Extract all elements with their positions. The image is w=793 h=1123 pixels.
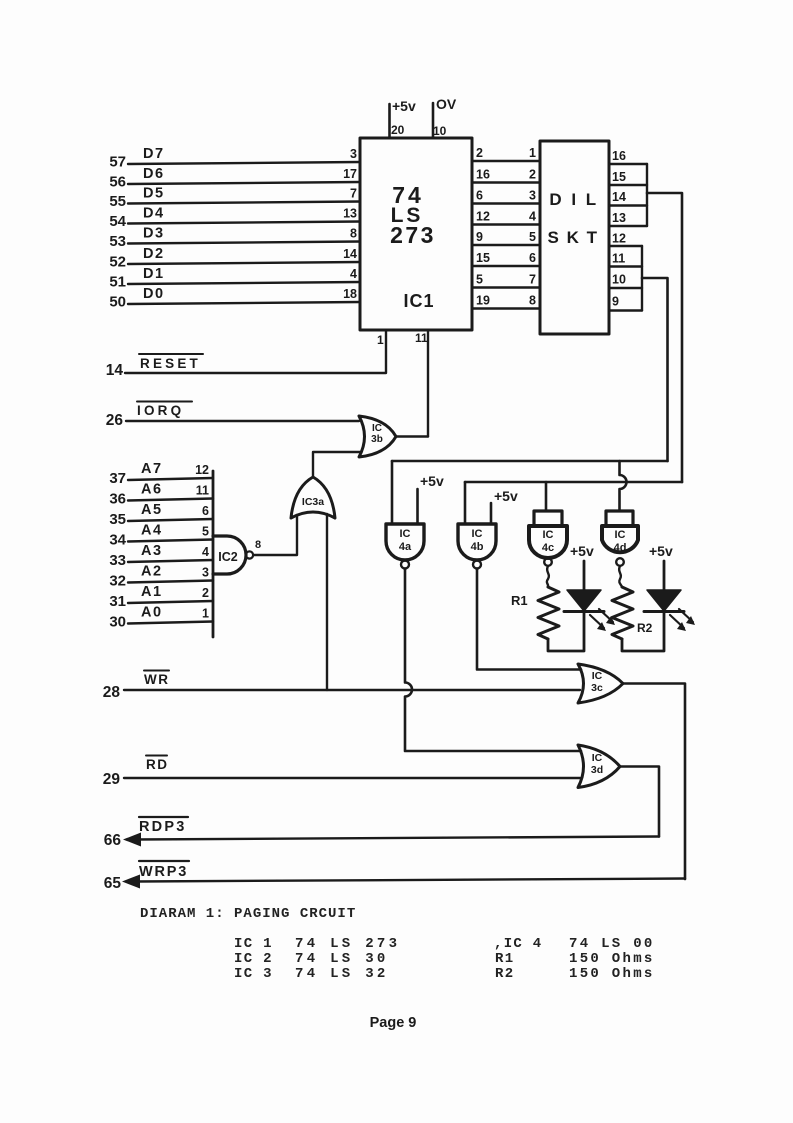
svg-text:66: 66 (104, 832, 122, 849)
caption DIARAM 1: PAGING CRCUIT (140, 906, 356, 922)
wire R2 bottom to LED2 cathode (622, 612, 664, 651)
svg-text:A2: A2 (141, 564, 163, 580)
wire DIL pin 14 net to IC4b/IC4c inputs (465, 481, 682, 484)
wire address line A2 to IC2 pin 3 (128, 581, 213, 583)
pin 12 label (476, 210, 490, 224)
svg-text:55: 55 (109, 193, 126, 210)
svg-text:11: 11 (196, 484, 209, 498)
wire IC1 pin 12 to DIL SKT pin 4 (472, 223, 540, 225)
IC (74LS273) U IC1 body (360, 138, 472, 330)
svg-text:R2: R2 (495, 966, 514, 982)
svg-text:D2: D2 (143, 246, 165, 262)
node RDP3 label (139, 817, 188, 835)
wire +5v supply to IC1 pin 20 (388, 104, 391, 138)
node signal number 56 (109, 174, 126, 191)
pin 4 label (202, 545, 209, 559)
pin 13 label (612, 211, 626, 225)
pin 11 label (196, 484, 209, 498)
svg-text:RD: RD (146, 757, 169, 772)
svg-text:D3: D3 (143, 226, 165, 242)
wire DIL SKT right-side pin row separator 1 (609, 163, 647, 165)
pin 11 label (415, 331, 428, 345)
svg-text:A6: A6 (141, 482, 163, 498)
svg-text:13: 13 (612, 211, 626, 225)
node IORQ label (137, 402, 192, 419)
nand-gate IC4b body (458, 524, 496, 569)
node D4 label (143, 206, 165, 222)
svg-text:S K T: S K T (548, 228, 599, 247)
nand-gate IC4d shorted-inputs box (606, 511, 633, 526)
svg-text:11: 11 (612, 252, 625, 266)
svg-text:8: 8 (529, 294, 536, 308)
svg-text:74 LS 32: 74 LS 32 (295, 966, 389, 982)
node signal number 34 (109, 532, 126, 549)
DIL label (549, 190, 598, 209)
node signal number 36 (109, 491, 126, 508)
node +5v label for LED2 (649, 543, 673, 559)
wire DIL SKT right-side pin row separator 8 (609, 309, 642, 311)
svg-text:13: 13 (343, 207, 357, 221)
node signal number 51 (109, 274, 126, 291)
node signal number 33 (109, 552, 126, 569)
node signal number 54 (109, 213, 126, 230)
svg-text:A1: A1 (141, 584, 163, 600)
wire RDP3 output line (134, 837, 659, 840)
svg-text:D1: D1 (143, 266, 165, 282)
svg-text:4: 4 (350, 267, 357, 281)
wire address line A4 to IC2 pin 5 (128, 540, 213, 542)
svg-text:5: 5 (476, 273, 483, 287)
node signal number 29 (103, 771, 121, 788)
svg-text:12: 12 (612, 232, 626, 246)
nand-gate IC2 input bar (212, 471, 215, 637)
wire data line D6 to IC1 pin 17 (128, 182, 360, 184)
svg-text:R1: R1 (511, 593, 528, 608)
svg-text:A5: A5 (141, 502, 163, 518)
node 0V label (436, 96, 457, 112)
node signal number 37 (109, 470, 126, 487)
svg-text:52: 52 (109, 254, 126, 271)
svg-text:4: 4 (202, 545, 209, 559)
svg-text:1: 1 (202, 607, 209, 621)
svg-text:14: 14 (106, 362, 124, 379)
wire IC2 output to IC3a input (254, 515, 298, 555)
svg-text:9: 9 (476, 230, 483, 244)
pin 6 label (529, 251, 536, 265)
svg-text:R2: R2 (637, 621, 653, 635)
nand-gate IC4d body (602, 526, 638, 566)
svg-text:5: 5 (202, 525, 209, 539)
svg-text:15: 15 (476, 251, 490, 265)
svg-text:A7: A7 (141, 461, 163, 477)
wire address line A5 to IC2 pin 6 (128, 519, 213, 521)
wire data line D7 to IC1 pin 3 (128, 162, 360, 164)
or-gate IC3c (578, 664, 623, 703)
pin 19 label (476, 294, 490, 308)
wire address line A0 to IC2 pin 1 (128, 622, 213, 624)
wire DIL SKT right-side pin row separator 5 (609, 245, 642, 247)
pin 4 label (529, 210, 536, 224)
svg-text:28: 28 (103, 684, 121, 701)
wire address line A7 to IC2 pin 12 (128, 478, 213, 480)
pin 8 label (350, 227, 357, 241)
wire data line D0 to IC1 pin 18 (128, 302, 360, 304)
pin 16 label (612, 149, 626, 163)
LED D2 (644, 590, 695, 631)
pin 2 label (529, 168, 536, 182)
wire IC4b left input from pin14 net (464, 482, 467, 524)
svg-text:+5v: +5v (494, 488, 518, 504)
svg-text:D7: D7 (143, 146, 165, 162)
wire 0V supply to IC1 pin 10 (432, 103, 435, 138)
svg-text:50: 50 (109, 294, 126, 311)
pin 5 label (202, 525, 209, 539)
or-gate IC3a (291, 477, 335, 518)
wire IC3c output to WRP3 (623, 684, 685, 880)
nand-gate IC4a body (386, 524, 424, 569)
wire data line D4 to IC1 pin 13 (128, 222, 360, 224)
svg-text:IC 2: IC 2 (234, 951, 273, 967)
svg-text:IC: IC (592, 670, 603, 682)
node A5 label (141, 502, 163, 518)
wire IC4c output to R1 (547, 566, 549, 587)
wire DIL SKT right-side pin row separator 7 (609, 287, 642, 289)
node signal number 30 (109, 614, 126, 631)
pin 3 label (529, 189, 536, 203)
wire DIL SKT right-side pin row separator 6 (609, 265, 642, 267)
svg-text:IORQ: IORQ (137, 403, 184, 418)
pin 14 label (343, 247, 357, 261)
wire RESET to IC1 pin 1 (125, 331, 386, 373)
svg-text:74 LS 00: 74 LS 00 (569, 936, 655, 952)
svg-text:OV: OV (436, 96, 457, 112)
svg-text:5: 5 (529, 230, 536, 244)
svg-text:4a: 4a (399, 541, 412, 553)
wire IC1 pin 19 to DIL SKT pin 8 (472, 307, 540, 309)
svg-text:273: 273 (390, 222, 436, 248)
parts list left column (234, 936, 400, 952)
wire IC1 pin 11 clock to IC3b output (427, 331, 429, 437)
wire IC4b +5v input (490, 503, 493, 524)
pin 4 label (350, 267, 357, 281)
pin 18 label (343, 287, 357, 301)
svg-text:31: 31 (109, 593, 126, 610)
svg-text:D6: D6 (143, 166, 165, 182)
wire RD to IC3d input (124, 777, 580, 779)
node signal number 53 (109, 233, 126, 250)
svg-text:IC 1: IC 1 (234, 936, 273, 952)
node signal number 28 (103, 684, 121, 701)
node RD label (146, 756, 169, 773)
svg-text:16: 16 (612, 149, 626, 163)
wire DIL right edge pins 15-13 (646, 164, 648, 226)
node signal number 55 (109, 193, 126, 210)
node A1 label (141, 584, 163, 600)
node signal number 35 (109, 511, 126, 528)
svg-text:RDP3: RDP3 (139, 819, 186, 835)
svg-text:WRP3: WRP3 (139, 864, 188, 880)
node A7 label (141, 461, 163, 477)
wire IC4b output to IC3c input (477, 569, 581, 670)
wire DIL pin 10 net to IC4a input (392, 460, 668, 463)
svg-text:IC 3: IC 3 (234, 966, 273, 982)
wire WRP3 output line (136, 879, 685, 882)
svg-text:20: 20 (391, 123, 405, 137)
IC1 value label 74 LS 273 (390, 182, 436, 248)
node signal number 57 (109, 154, 126, 171)
LED D1 (564, 590, 615, 631)
svg-text:14: 14 (343, 247, 357, 261)
or-gate IC3b (359, 416, 396, 457)
node +5v label (420, 473, 444, 489)
svg-text:IC: IC (615, 529, 626, 541)
svg-text:17: 17 (343, 167, 357, 181)
pin 6 label (476, 189, 483, 203)
pin 20 label (391, 123, 405, 137)
pin 14 label (612, 190, 626, 204)
wire WR to IC3c input (124, 689, 580, 691)
svg-text:51: 51 (109, 274, 126, 291)
svg-text:IC: IC (372, 423, 382, 434)
pin 9 label (612, 295, 619, 309)
svg-text:+5v: +5v (420, 473, 444, 489)
node RESET label (139, 354, 203, 371)
node signal number 50 (109, 294, 126, 311)
node D7 label (143, 146, 165, 162)
wire IC3d output to RDP3 (620, 767, 659, 837)
node +5v label (494, 488, 518, 504)
wire IC1 pin 16 to DIL SKT pin 2 (472, 181, 540, 183)
svg-text:DIARAM 1: PAGING CRCUIT: DIARAM 1: PAGING CRCUIT (140, 906, 356, 922)
svg-text:54: 54 (109, 213, 126, 230)
svg-text:7: 7 (529, 273, 536, 287)
wire IC3b output to IC1 pin 11 (396, 435, 428, 437)
svg-text:12: 12 (195, 463, 209, 477)
pin 2 label (476, 146, 483, 160)
wire DIL SKT right-side pin row separator 2 (609, 184, 647, 186)
node A0 label (141, 605, 163, 621)
svg-text:D5: D5 (143, 186, 165, 202)
wire IC3a input to WR line (326, 514, 328, 690)
svg-text:19: 19 (476, 294, 490, 308)
svg-text:IC: IC (472, 528, 483, 540)
svg-text:6: 6 (529, 251, 536, 265)
pin 7 label (350, 187, 357, 201)
node signal number 26 (106, 412, 124, 429)
wire DIL SKT right-side pin row separator 3 (609, 204, 647, 206)
svg-text:2: 2 (476, 146, 483, 160)
node D0 label (143, 286, 165, 302)
svg-text:4c: 4c (542, 542, 554, 554)
svg-text:4b: 4b (471, 541, 484, 553)
svg-text:6: 6 (202, 504, 209, 518)
pin 9 label (476, 230, 483, 244)
wire DIL pin 14 to IC4b/IC4c net (647, 193, 682, 482)
svg-text:A0: A0 (141, 605, 163, 621)
node signal number 52 (109, 254, 126, 271)
svg-text:6: 6 (476, 189, 483, 203)
svg-text:30: 30 (109, 614, 126, 631)
wire address line A3 to IC2 pin 4 (128, 560, 213, 562)
wire IC4a +5v input (416, 489, 419, 524)
svg-text:1: 1 (529, 146, 536, 160)
svg-text:IC: IC (400, 528, 411, 540)
node A3 label (141, 543, 163, 559)
svg-text:1: 1 (377, 333, 384, 347)
wire address line A1 to IC2 pin 2 (128, 601, 213, 603)
node D2 label (143, 246, 165, 262)
node A2 label (141, 564, 163, 580)
svg-text:74 LS 273: 74 LS 273 (295, 936, 400, 952)
wire DIL right edge pins 11-9 (641, 246, 643, 311)
wire IC1 pin 5 to DIL SKT pin 7 (472, 286, 540, 288)
svg-text:11: 11 (415, 331, 428, 345)
R2 value label (637, 621, 653, 635)
svg-text:35: 35 (109, 511, 126, 528)
svg-text:8: 8 (255, 539, 261, 551)
svg-text:,IC 4: ,IC 4 (494, 936, 543, 952)
pin 15 label (476, 251, 490, 265)
svg-text:74 LS 30: 74 LS 30 (295, 951, 389, 967)
svg-text:57: 57 (109, 154, 126, 171)
svg-text:10: 10 (612, 273, 626, 287)
node signal number 32 (109, 573, 126, 590)
node signal number 14 (106, 362, 124, 379)
svg-text:4: 4 (529, 210, 536, 224)
pin 1 label (202, 607, 209, 621)
resistor R1 (538, 587, 559, 639)
parts list right column (494, 936, 655, 952)
svg-text:IC3a: IC3a (302, 496, 324, 508)
svg-text:+5v: +5v (392, 98, 416, 114)
node signal number 65 (104, 875, 122, 892)
nand-gate IC2 body (213, 536, 253, 574)
svg-text:65: 65 (104, 875, 122, 892)
pin 8 label (529, 294, 536, 308)
svg-text:34: 34 (109, 532, 126, 549)
wire data line D2 to IC1 pin 14 (128, 262, 360, 264)
svg-text:+5v: +5v (649, 543, 673, 559)
svg-text:3: 3 (529, 189, 536, 203)
svg-text:WR: WR (144, 672, 170, 687)
pin 17 label (343, 167, 357, 181)
wire IC4c input from pin14 net (545, 482, 548, 511)
svg-text:D4: D4 (143, 206, 165, 222)
svg-text:2: 2 (529, 168, 536, 182)
nand-gate IC4c shorted-inputs box (534, 511, 562, 526)
wire data line D3 to IC1 pin 8 (128, 242, 360, 244)
wire data line D5 to IC1 pin 7 (128, 202, 360, 204)
pin 7 label (529, 273, 536, 287)
svg-text:+5v: +5v (570, 543, 594, 559)
pin 10 label (433, 124, 447, 138)
svg-text:3: 3 (350, 147, 357, 161)
svg-text:IC: IC (543, 529, 554, 541)
svg-text:IC1: IC1 (403, 291, 434, 311)
pin 12 label (195, 463, 209, 477)
svg-text:150 Ohms: 150 Ohms (569, 966, 655, 982)
svg-text:Page 9: Page 9 (370, 1015, 417, 1031)
pin 3 label (350, 147, 357, 161)
pin 11 label (612, 252, 625, 266)
svg-text:10: 10 (433, 124, 447, 138)
wire IC1 pin 2 to DIL SKT pin 1 (472, 160, 540, 162)
svg-text:3d: 3d (591, 764, 603, 776)
wire data line D1 to IC1 pin 4 (128, 282, 360, 284)
node A4 label (141, 523, 163, 539)
svg-text:15: 15 (612, 170, 626, 184)
node +5v label (392, 98, 416, 114)
R1 value label (511, 593, 528, 608)
svg-text:150 Ohms: 150 Ohms (569, 951, 655, 967)
svg-text:D0: D0 (143, 286, 165, 302)
or-gate IC3d (578, 745, 620, 788)
pin 1 label (377, 333, 384, 347)
svg-text:53: 53 (109, 233, 126, 250)
pin 2 label (202, 586, 209, 600)
pin 16 label (476, 168, 490, 182)
wire IC1 pin 15 to DIL SKT pin 6 (472, 265, 540, 267)
wire DIL SKT right-side pin row separator 4 (609, 225, 647, 227)
node A6 label (141, 482, 163, 498)
svg-text:33: 33 (109, 552, 126, 569)
node D6 label (143, 166, 165, 182)
svg-text:IC: IC (592, 752, 603, 764)
pin 5 label (529, 230, 536, 244)
resistor R2 (612, 587, 633, 639)
socket DIL SKT body (540, 141, 609, 334)
wire IC4d output to R2 (619, 566, 622, 587)
svg-text:R1: R1 (495, 951, 514, 967)
pin 5 label (476, 273, 483, 287)
node WRP3 label (139, 861, 189, 880)
svg-text:D I L: D I L (549, 190, 598, 209)
svg-text:26: 26 (106, 412, 124, 429)
pin 12 label (612, 232, 626, 246)
svg-text:56: 56 (109, 174, 126, 191)
wire IORQ to IC3b input (126, 420, 359, 422)
svg-text:32: 32 (109, 573, 126, 590)
wire address line A6 to IC2 pin 11 (128, 499, 213, 501)
pin 8 label (255, 539, 261, 551)
IC1 reference designator (403, 291, 434, 311)
node D1 label (143, 266, 165, 282)
pin 10 label (612, 273, 626, 287)
svg-text:A3: A3 (141, 543, 163, 559)
pin 15 label (612, 170, 626, 184)
svg-text:4d: 4d (614, 542, 627, 554)
pin 6 label (202, 504, 209, 518)
svg-text:18: 18 (343, 287, 357, 301)
svg-text:7: 7 (350, 187, 357, 201)
wire IC1 pin 9 to DIL SKT pin 5 (472, 244, 540, 246)
node D3 label (143, 226, 165, 242)
node WR label (144, 671, 170, 688)
node signal number 66 (104, 832, 122, 849)
svg-text:3c: 3c (591, 682, 603, 694)
node D5 label (143, 186, 165, 202)
arrow WRP3 (122, 875, 140, 889)
wire +5v to LED1 anode (583, 561, 586, 590)
wire DIL pin 10 to IC4a/IC4d net (642, 278, 668, 461)
wire IC3a output to IC3b input (313, 452, 361, 477)
svg-text:29: 29 (103, 771, 121, 788)
svg-text:A4: A4 (141, 523, 163, 539)
pin 3 label (202, 566, 209, 580)
svg-text:2: 2 (202, 586, 209, 600)
svg-text:8: 8 (350, 227, 357, 241)
SKT label (548, 228, 599, 247)
